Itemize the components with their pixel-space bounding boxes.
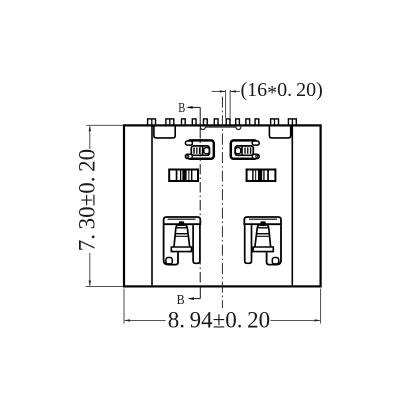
svg-text:B: B <box>178 100 185 115</box>
svg-text:8. 94±0. 20: 8. 94±0. 20 <box>168 307 270 332</box>
svg-text:B: B <box>177 293 185 308</box>
svg-text:(16*0. 20): (16*0. 20) <box>241 79 323 104</box>
svg-text:7. 30±0. 20: 7. 30±0. 20 <box>75 149 100 251</box>
